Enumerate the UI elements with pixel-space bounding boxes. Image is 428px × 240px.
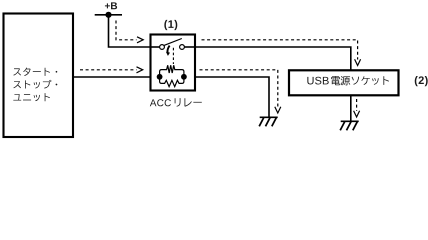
start/stop unit U1 box (4, 14, 74, 138)
wire USB socket to ground (350, 96, 352, 122)
ground G2 (USB socket) (340, 121, 359, 130)
wire relay switch to USB socket (195, 47, 351, 70)
USB power socket box (289, 70, 399, 95)
current-flow dashed arrow unit to coil (80, 67, 143, 73)
wire unit to relay coil input (73, 76, 156, 78)
label +B (105, 2, 117, 9)
relay coil L1 (top zigzag) (160, 65, 184, 77)
node: coil right terminal (181, 74, 187, 80)
node: coil left terminal (157, 74, 163, 80)
label (1) (164, 20, 177, 30)
current-flow dashed arrow switch to USB socket (202, 40, 361, 66)
current-flow dashed arrow +B to relay (116, 21, 143, 43)
ACC relay K1 box (151, 35, 196, 91)
relay switch contact stubs and wire (151, 46, 196, 48)
label ACCリレー (150, 99, 171, 106)
relay switch right contact (180, 45, 185, 50)
wire relay coil to ground (195, 77, 269, 117)
relay actuation arrow (166, 46, 170, 56)
label USB電源ソケット (307, 77, 328, 85)
relay switch left contact (160, 45, 165, 50)
current-flow dashed arrow coil to ground (200, 70, 281, 113)
label スタート・ストップ・ユニット (13, 68, 57, 102)
ground G1 (relay coil) (259, 117, 278, 126)
dashed link switch to coil (172, 48, 174, 64)
label (2) (415, 76, 428, 86)
wire +B to relay switch input (109, 15, 151, 47)
current-flow dashed arrow USB socket to ground (354, 99, 360, 117)
relay switch blade (open) (164, 39, 182, 46)
+B supply terminal (95, 12, 122, 18)
relay coil shunt resistor R1 (bottom zigzag) (160, 77, 184, 87)
